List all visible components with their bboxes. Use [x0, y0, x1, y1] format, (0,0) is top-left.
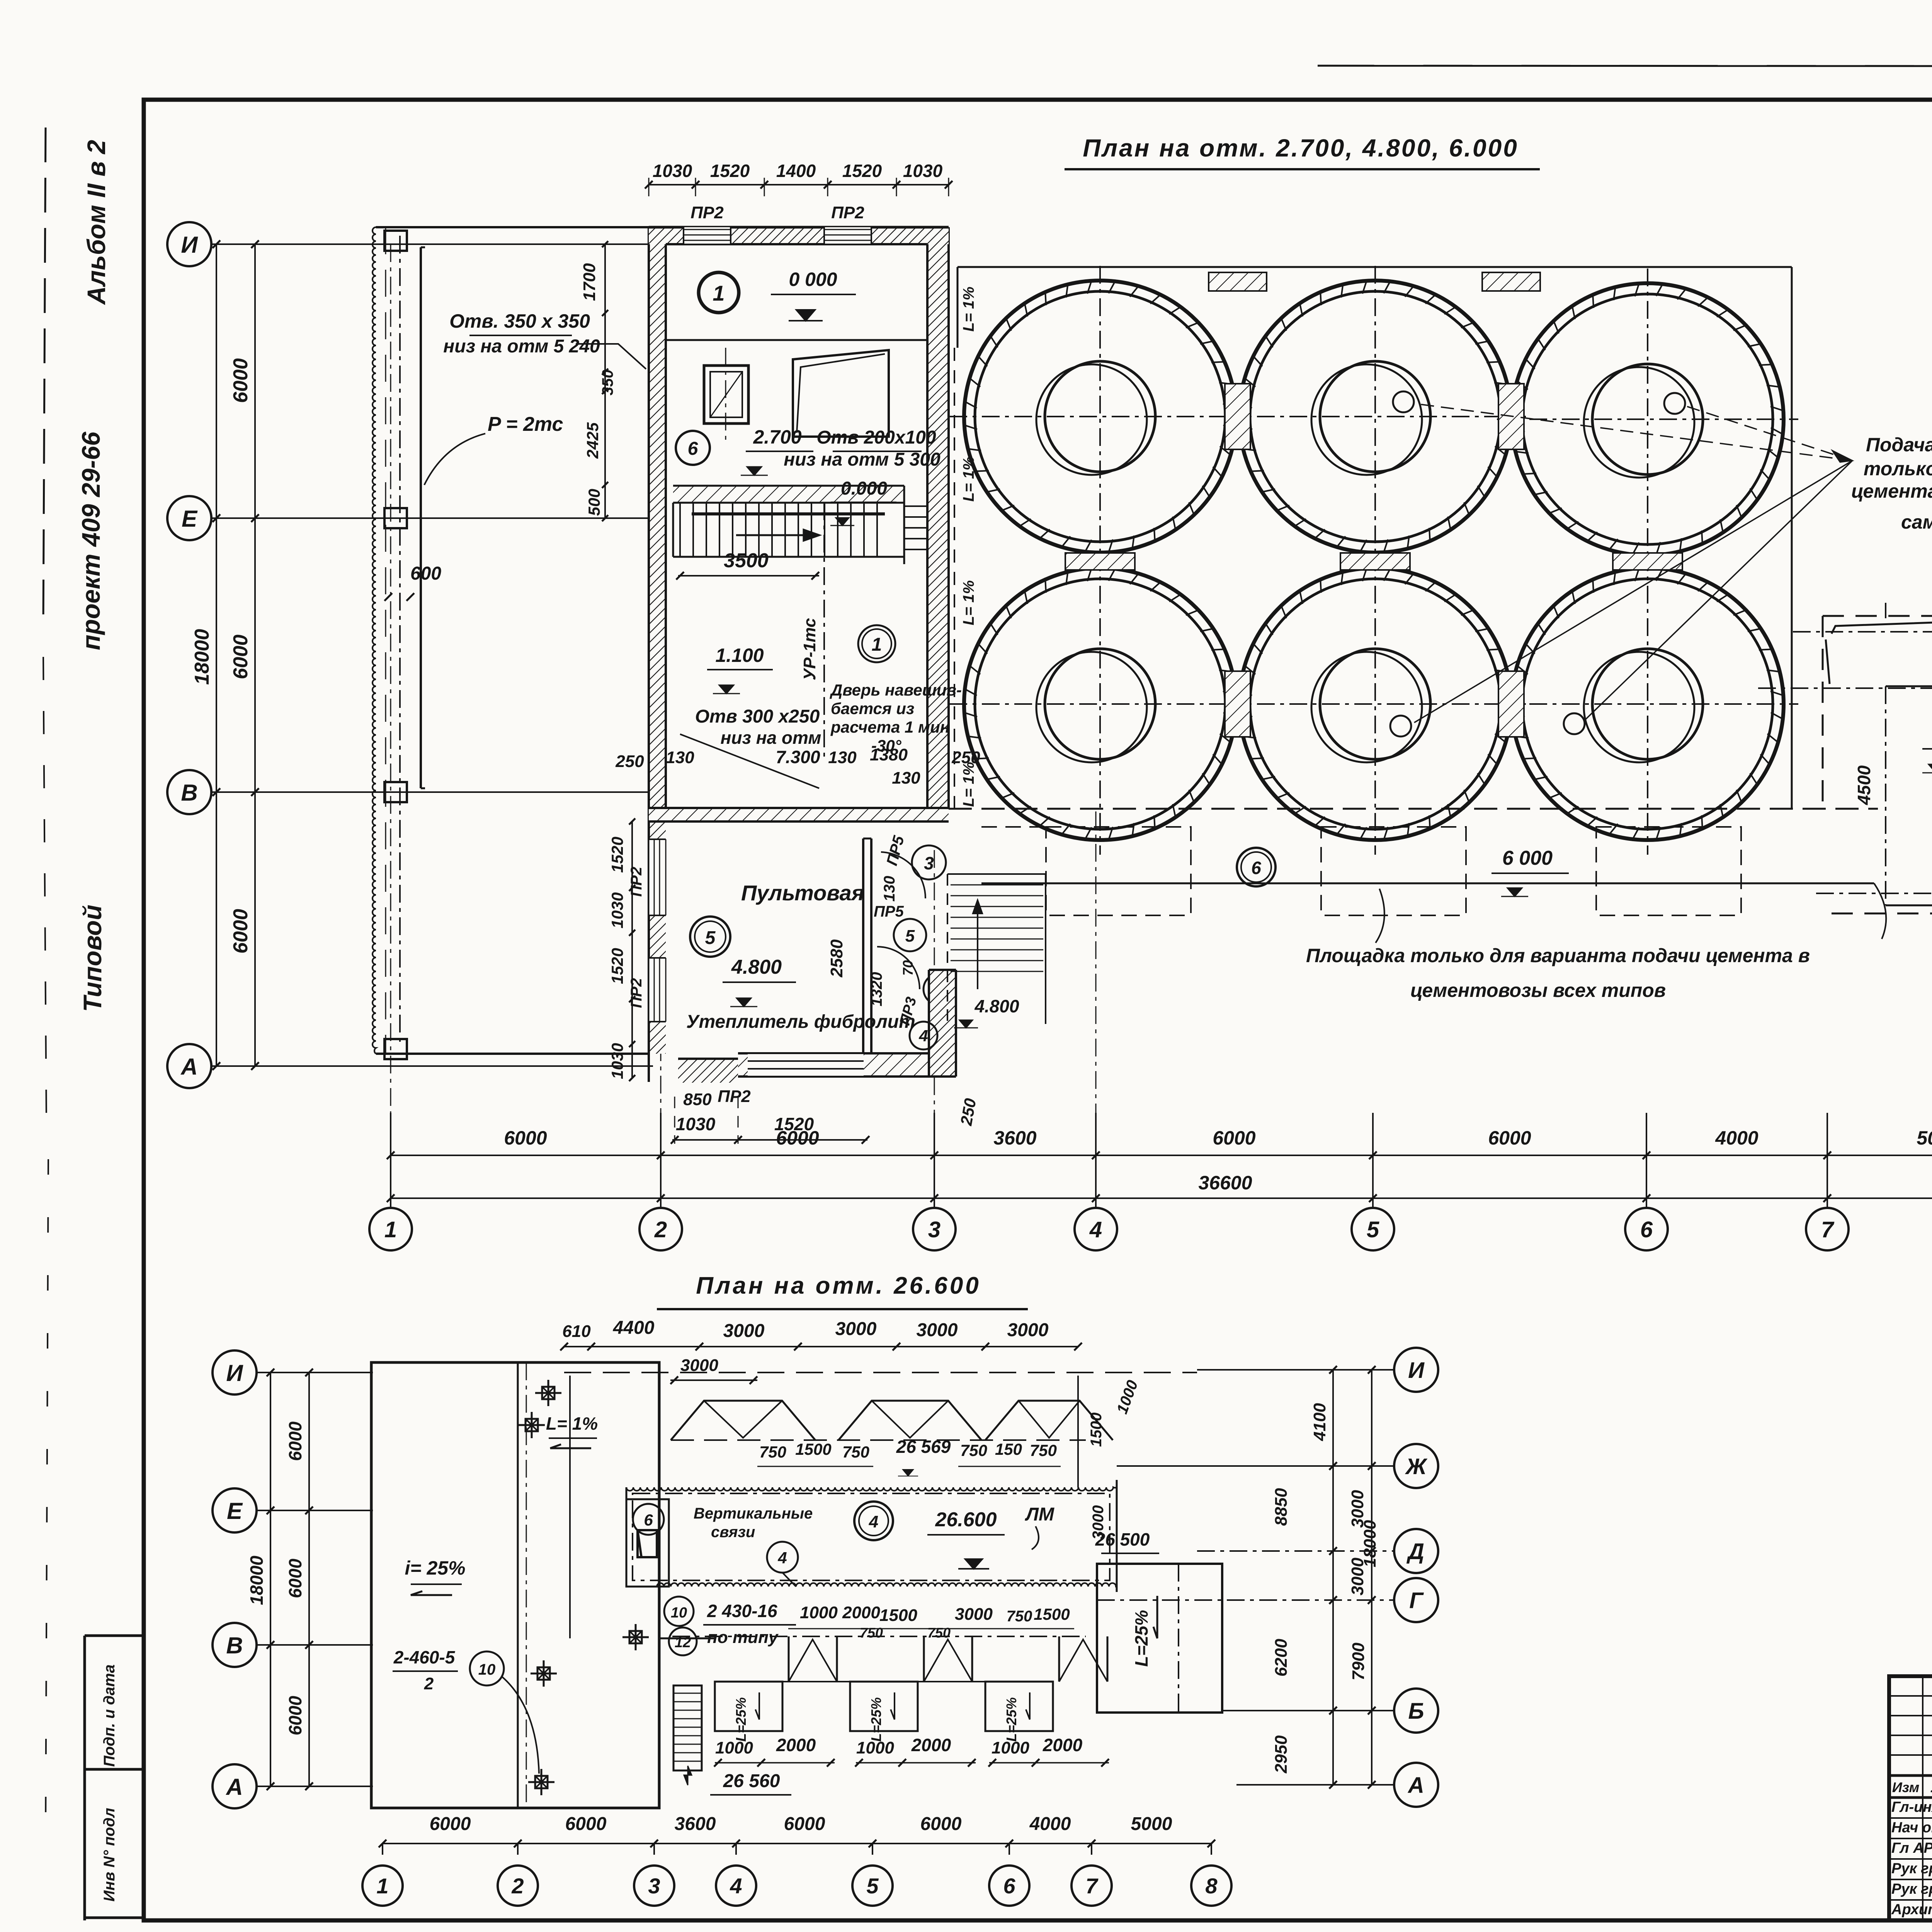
- svg-text:1520: 1520: [608, 948, 626, 984]
- svg-text:L=25%: L=25%: [868, 1697, 884, 1742]
- axis circle 7 bottom: [1071, 1866, 1112, 1906]
- roof block L=25%: [850, 1682, 918, 1731]
- svg-text:5: 5: [866, 1874, 879, 1898]
- open shed (left) outline: [376, 226, 649, 228]
- svg-text:ПР2: ПР2: [831, 203, 864, 222]
- left wall windows (lower): [649, 839, 666, 915]
- svg-text:Гл АРХ отд: Гл АРХ отд: [1891, 1840, 1932, 1856]
- right lower walls: [929, 970, 956, 1077]
- svg-text:А: А: [180, 1054, 197, 1080]
- stair treads: [679, 503, 681, 557]
- crane rail: [420, 247, 422, 788]
- svg-text:4: 4: [1089, 1217, 1102, 1242]
- left margin stamp column: [85, 1634, 144, 1637]
- axis circle А left: [167, 1044, 211, 1088]
- svg-text:6000: 6000: [230, 909, 252, 954]
- wall dim chain 1700 350 2425 500: [604, 244, 606, 518]
- svg-text:750: 750: [759, 1443, 786, 1461]
- svg-text:2000: 2000: [911, 1735, 951, 1755]
- svg-text:Отв 300 x250: Отв 300 x250: [695, 706, 820, 727]
- svg-text:Архитект: Архитект: [1891, 1901, 1932, 1918]
- svg-text:5: 5: [905, 927, 915, 946]
- bottom plan left dim chains: [270, 1372, 271, 1786]
- svg-text:4: 4: [918, 1027, 928, 1045]
- svg-text:7: 7: [1085, 1874, 1099, 1898]
- svg-text:6: 6: [1251, 858, 1261, 878]
- svg-text:L=25%: L=25%: [1003, 1697, 1019, 1742]
- svg-text:4.800: 4.800: [974, 996, 1019, 1016]
- svg-text:26.600: 26.600: [935, 1509, 997, 1531]
- svg-text:2: 2: [424, 1674, 434, 1693]
- title block: [1889, 1676, 1932, 1920]
- svg-text:4100: 4100: [1310, 1403, 1329, 1441]
- svg-text:низ на отм: низ на отм: [721, 728, 821, 748]
- svg-text:6000: 6000: [430, 1814, 471, 1834]
- roof funnel: [671, 1401, 815, 1440]
- bottom plan small stair: [673, 1685, 702, 1770]
- svg-text:по типу: по типу: [707, 1628, 779, 1647]
- axis circle 8 bottom: [1191, 1866, 1231, 1906]
- lower-left window dims (rotated): [631, 821, 633, 1078]
- silo 3: [1512, 283, 1784, 555]
- svg-text:6: 6: [1003, 1874, 1015, 1898]
- svg-text:5: 5: [1367, 1217, 1379, 1242]
- axis circle В left: [167, 770, 211, 814]
- shed columns: [384, 231, 407, 251]
- svg-text:План на отм. 26.600: План на отм. 26.600: [696, 1272, 981, 1299]
- svg-text:4: 4: [869, 1512, 878, 1531]
- svg-text:Б: Б: [1408, 1699, 1424, 1724]
- svg-text:18000: 18000: [191, 629, 213, 685]
- svg-text:Утеплитель фибролит: Утеплитель фибролит: [686, 1012, 915, 1032]
- svg-text:18000: 18000: [247, 1556, 267, 1605]
- axis circle 4: [1075, 1208, 1117, 1250]
- svg-text:L= 1%: L= 1%: [960, 287, 977, 332]
- svg-text:L= 1%: L= 1%: [960, 580, 977, 626]
- stair down flight right: [904, 505, 927, 507]
- svg-text:1520: 1520: [842, 161, 882, 181]
- bottom plan bottom dim chain: [383, 1843, 1211, 1844]
- svg-text:1030: 1030: [608, 1043, 626, 1079]
- svg-text:Подача из воронок силосов: Подача из воронок силосов: [1866, 434, 1932, 456]
- room number 5 double circle: [690, 917, 730, 957]
- svg-text:6000: 6000: [230, 358, 252, 403]
- svg-text:1.100: 1.100: [715, 645, 764, 666]
- svg-text:1000: 1000: [992, 1738, 1029, 1757]
- svg-text:500: 500: [585, 489, 603, 516]
- platform strip below silos: [981, 883, 1874, 884]
- svg-text:3000: 3000: [835, 1319, 877, 1339]
- roof block L=25%: [715, 1682, 782, 1731]
- circled 4 leader below gallery: [767, 1542, 798, 1573]
- svg-text:Подп. и дата: Подп. и дата: [101, 1665, 118, 1767]
- svg-text:Д: Д: [1406, 1539, 1424, 1564]
- svg-text:самозагрузкой: самозагрузкой: [1901, 511, 1932, 533]
- building outer walls (hatched): [649, 227, 666, 1054]
- top plan left axis lines: [212, 243, 653, 245]
- svg-text:Ж: Ж: [1405, 1454, 1428, 1479]
- svg-text:2950: 2950: [1272, 1735, 1291, 1774]
- svg-text:600: 600: [410, 563, 441, 584]
- circled 10/12 по типу: [664, 1597, 694, 1626]
- svg-text:6000: 6000: [1488, 1127, 1531, 1149]
- bottom plan building outline: [371, 1362, 659, 1808]
- svg-text:1500: 1500: [1088, 1413, 1105, 1447]
- silo 5: [1239, 568, 1511, 840]
- svg-text:750: 750: [1030, 1441, 1057, 1459]
- axis circle 3: [913, 1208, 956, 1250]
- axis circle 7: [1806, 1208, 1849, 1250]
- svg-text:6: 6: [688, 439, 698, 459]
- silo block inner dashed edge: [954, 348, 955, 809]
- axis circle 4 bottom: [716, 1866, 756, 1906]
- svg-text:8850: 8850: [1272, 1488, 1291, 1526]
- circled 4 leader: [910, 1022, 937, 1049]
- svg-text:2000: 2000: [776, 1735, 816, 1755]
- svg-text:бается из: бается из: [831, 699, 914, 718]
- svg-text:610: 610: [562, 1322, 591, 1341]
- svg-text:3: 3: [648, 1874, 660, 1898]
- paper edge artifacts: [43, 128, 46, 618]
- svg-text:6000: 6000: [230, 634, 252, 679]
- svg-text:6000: 6000: [285, 1696, 305, 1735]
- svg-text:1520: 1520: [608, 837, 626, 872]
- svg-text:Отв. 350 x 350: Отв. 350 x 350: [449, 310, 590, 332]
- svg-text:Вертикальные: Вертикальные: [694, 1505, 813, 1522]
- svg-text:4400: 4400: [613, 1318, 655, 1338]
- svg-text:ПР2: ПР2: [718, 1087, 751, 1106]
- axis circle 1: [369, 1208, 412, 1250]
- roof block L=25%: [985, 1682, 1053, 1731]
- bottom plan left axis lines: [257, 1372, 373, 1373]
- centerline through windows: [725, 348, 726, 440]
- right room outline (dashed): [1823, 615, 1932, 617]
- svg-text:6000: 6000: [565, 1814, 607, 1834]
- svg-text:2425: 2425: [583, 422, 602, 459]
- svg-text:ПР2: ПР2: [690, 203, 724, 222]
- svg-text:6 000: 6 000: [1502, 847, 1553, 869]
- svg-text:70: 70: [900, 960, 916, 976]
- svg-text:Альбом II в 2: Альбом II в 2: [82, 140, 111, 305]
- svg-text:3500: 3500: [724, 549, 769, 572]
- door arc ПР5 room 3: [912, 845, 946, 879]
- svg-text:Пультовая: Пультовая: [741, 881, 864, 905]
- window rect small: [704, 366, 748, 423]
- svg-text:1380: 1380: [870, 745, 908, 764]
- bottom plan: right square: [1097, 1564, 1222, 1713]
- svg-text:5000: 5000: [1131, 1814, 1172, 1834]
- svg-text:1030: 1030: [653, 161, 692, 181]
- svg-text:0.000: 0.000: [841, 478, 887, 499]
- svg-text:В: В: [181, 780, 197, 806]
- svg-text:6000: 6000: [285, 1558, 305, 1598]
- gallery (надсилосная галерея): [626, 1487, 1117, 1491]
- roof funnel: [985, 1401, 1113, 1440]
- svg-text:3000: 3000: [1090, 1505, 1107, 1540]
- external stair right: [947, 874, 948, 1024]
- axis circle В bottom-left: [213, 1623, 257, 1667]
- svg-text:3600: 3600: [675, 1814, 716, 1834]
- drain funnel symbol: [519, 1424, 545, 1426]
- svg-text:3000: 3000: [680, 1356, 718, 1375]
- svg-text:1030: 1030: [676, 1114, 716, 1134]
- axis circle Е left: [167, 496, 211, 540]
- svg-text:7: 7: [1821, 1217, 1835, 1242]
- Пультовая room walls: [648, 1054, 650, 1082]
- window ПР2 openings in top wall: [684, 227, 731, 244]
- svg-text:5: 5: [705, 928, 716, 948]
- top plan left dim chain: [216, 244, 217, 1066]
- svg-text:750: 750: [1007, 1608, 1032, 1625]
- window rect big (skewed): [793, 350, 889, 437]
- svg-text:6000: 6000: [285, 1421, 305, 1461]
- svg-text:Типовой: Типовой: [78, 905, 107, 1012]
- bottom plan right dim chains: [1332, 1370, 1334, 1785]
- svg-text:3: 3: [924, 853, 934, 873]
- stair landing hatched: [673, 486, 904, 503]
- svg-text:150: 150: [995, 1440, 1022, 1458]
- bottom wall with window: [738, 1053, 929, 1077]
- axis circle 1 bottom: [362, 1866, 403, 1906]
- svg-text:6200: 6200: [1272, 1639, 1291, 1677]
- svg-text:6: 6: [1640, 1217, 1653, 1242]
- axis circle А bottom-right: [1394, 1763, 1438, 1807]
- lower roof funnel: [788, 1636, 790, 1682]
- УР-1тс centerline: [823, 502, 825, 757]
- svg-text:26 560: 26 560: [723, 1771, 780, 1791]
- axis circle 3 bottom: [634, 1866, 674, 1906]
- svg-text:6000: 6000: [1213, 1127, 1255, 1149]
- svg-text:36600: 36600: [1198, 1172, 1252, 1194]
- top dim chain 1030 1520 1400 1520 1030: [649, 184, 949, 185]
- building top wall: [649, 227, 949, 244]
- svg-text:Е: Е: [227, 1498, 243, 1524]
- svg-text:1: 1: [713, 281, 724, 305]
- svg-text:750: 750: [860, 1625, 883, 1641]
- svg-text:3000: 3000: [917, 1320, 958, 1340]
- axis circle Б bottom-right: [1394, 1689, 1438, 1733]
- svg-text:1: 1: [376, 1874, 388, 1898]
- svg-text:1520: 1520: [710, 161, 750, 181]
- svg-text:расчета 1 мин: расчета 1 мин: [830, 718, 950, 736]
- svg-text:7.300: 7.300: [776, 747, 820, 767]
- svg-text:1: 1: [872, 634, 882, 655]
- svg-text:L=25%: L=25%: [733, 1697, 749, 1742]
- svg-text:И: И: [1408, 1358, 1425, 1383]
- svg-text:План на отм. 2.700, 4.800,: План на отм. 2.700, 4.800, 6.000: [1083, 134, 1519, 162]
- svg-text:низ на отм 5 240: низ на отм 5 240: [443, 336, 600, 357]
- svg-text:1030: 1030: [608, 892, 626, 928]
- canopy top-left lines: [1832, 618, 1932, 634]
- svg-text:3000: 3000: [955, 1605, 993, 1624]
- svg-text:только для варианта подачи: только для варианта подачи: [1864, 458, 1932, 480]
- svg-text:i= 25%: i= 25%: [405, 1557, 465, 1579]
- svg-text:цементовозы всех типов: цементовозы всех типов: [1410, 980, 1666, 1001]
- leader dashed lines to manholes: [1416, 404, 1852, 461]
- top plan bottom dimension chains: [391, 1155, 1932, 1156]
- svg-text:3000: 3000: [723, 1321, 765, 1341]
- svg-text:10: 10: [671, 1605, 687, 1621]
- svg-text:4: 4: [777, 1549, 787, 1567]
- svg-text:6000: 6000: [504, 1127, 547, 1149]
- svg-text:12: 12: [675, 1634, 691, 1651]
- svg-text:0 000: 0 000: [789, 269, 837, 290]
- svg-text:750: 750: [960, 1441, 987, 1459]
- svg-text:1000 2000: 1000 2000: [800, 1603, 881, 1622]
- svg-text:4: 4: [730, 1874, 742, 1898]
- svg-text:4500: 4500: [1854, 765, 1874, 805]
- svg-text:3600: 3600: [993, 1127, 1036, 1149]
- svg-text:2 430-16: 2 430-16: [707, 1601, 777, 1621]
- circled 6 detail: [676, 431, 710, 465]
- svg-text:1500: 1500: [795, 1440, 831, 1458]
- svg-text:ПР2: ПР2: [628, 978, 645, 1008]
- top plan column axis lines (dash-dot verticals): [390, 1113, 391, 1206]
- shed rail centerline: [399, 236, 401, 1047]
- svg-text:УР-1тс: УР-1тс: [800, 618, 819, 680]
- silo hatch connectors: [1225, 384, 1250, 449]
- svg-text:6000: 6000: [920, 1814, 962, 1834]
- small manhole circles: [1393, 391, 1414, 412]
- svg-text:Гл-инж пр: Гл-инж пр: [1891, 1799, 1932, 1815]
- room number 1 (bold circle): [699, 272, 739, 313]
- svg-text:6000: 6000: [776, 1127, 819, 1149]
- svg-text:1000: 1000: [856, 1738, 894, 1757]
- axis circle И left: [167, 222, 211, 266]
- axis circle 6: [1625, 1208, 1668, 1250]
- svg-text:130: 130: [892, 769, 920, 787]
- svg-text:Е: Е: [182, 506, 198, 532]
- svg-text:18000: 18000: [1361, 1520, 1379, 1567]
- gallery left room: [626, 1499, 669, 1587]
- axis circle Д bottom-right: [1394, 1529, 1438, 1573]
- svg-text:Площадка только для варианта п: Площадка только для варианта подачи цеме…: [1306, 945, 1810, 966]
- stair rail + arrow: [692, 512, 885, 515]
- roof funnel: [838, 1401, 981, 1440]
- axis circle 5 bottom: [852, 1866, 893, 1906]
- drain funnel symbol: [531, 1673, 557, 1675]
- svg-text:10: 10: [478, 1661, 496, 1678]
- svg-text:ЛМ: ЛМ: [1025, 1504, 1054, 1525]
- svg-text:проект 409 29-66: проект 409 29-66: [77, 431, 105, 650]
- axis circle 2 bottom: [498, 1866, 538, 1906]
- svg-text:3000: 3000: [1007, 1320, 1049, 1340]
- inner partition + door arcs: [894, 919, 926, 951]
- svg-text:130: 130: [666, 748, 694, 767]
- svg-text:Нач отд.: Нач отд.: [1891, 1820, 1932, 1836]
- svg-text:P = 2тс: P = 2тс: [488, 413, 563, 435]
- svg-text:А: А: [225, 1774, 243, 1800]
- svg-text:2: 2: [511, 1874, 524, 1898]
- svg-text:Дверь навешив-: Дверь навешив-: [830, 681, 962, 699]
- axis circle И bottom-left: [213, 1350, 257, 1395]
- svg-text:1320: 1320: [868, 972, 885, 1007]
- axis circle И bottom-right: [1394, 1348, 1438, 1392]
- drain funnel symbol: [535, 1392, 561, 1394]
- svg-text:130: 130: [881, 876, 898, 902]
- lower roof funnel: [923, 1636, 925, 1682]
- drain funnel symbol: [528, 1781, 554, 1783]
- svg-text:130: 130: [828, 748, 857, 767]
- axis circle 2: [639, 1208, 682, 1250]
- svg-text:4000: 4000: [1029, 1814, 1071, 1834]
- svg-text:Инв N° подл: Инв N° подл: [101, 1808, 118, 1902]
- svg-text:5000: 5000: [1917, 1127, 1932, 1149]
- svg-text:1700: 1700: [580, 263, 599, 301]
- circled 4 double in gallery: [854, 1502, 893, 1540]
- svg-text:3: 3: [928, 1217, 940, 1242]
- svg-text:Рук гр: Рук гр: [1891, 1861, 1932, 1877]
- circled 6 on platform: [1237, 848, 1276, 886]
- svg-text:L= 1%: L= 1%: [960, 457, 977, 502]
- wall opening 350x350: [649, 372, 666, 391]
- svg-text:7900: 7900: [1349, 1643, 1368, 1680]
- building mid wall at lower room: [649, 808, 949, 821]
- svg-text:Изм: Изм: [1892, 1779, 1919, 1795]
- svg-text:2.700: 2.700: [753, 426, 801, 448]
- svg-text:8: 8: [1205, 1874, 1218, 1898]
- silo 4: [964, 568, 1236, 840]
- svg-text:26 569: 26 569: [896, 1437, 951, 1457]
- svg-text:ПР2: ПР2: [628, 867, 645, 897]
- svg-text:1: 1: [384, 1217, 397, 1242]
- axis circle 5: [1352, 1208, 1394, 1250]
- svg-text:2: 2: [654, 1217, 667, 1242]
- room number 1 (double circle): [858, 625, 895, 662]
- svg-text:низ на отм 5 300: низ на отм 5 300: [784, 449, 940, 470]
- svg-text:750: 750: [842, 1443, 869, 1461]
- svg-text:И: И: [181, 232, 198, 258]
- svg-text:4000: 4000: [1715, 1127, 1758, 1149]
- svg-text:350: 350: [599, 370, 616, 396]
- lower funnels and blocks: [672, 1636, 1086, 1637]
- svg-text:6: 6: [644, 1511, 653, 1529]
- svg-text:L= 1%: L= 1%: [960, 762, 977, 807]
- svg-text:Отв 200x100: Отв 200x100: [816, 427, 936, 448]
- svg-text:6000: 6000: [784, 1814, 825, 1834]
- svg-text:850: 850: [683, 1090, 712, 1109]
- circled 6 gallery: [633, 1504, 664, 1535]
- silo block outline: [957, 266, 1792, 268]
- silo 1: [964, 281, 1236, 553]
- axis circle Ж bottom-right: [1394, 1444, 1438, 1488]
- svg-text:L=25%: L=25%: [1131, 1610, 1151, 1667]
- axis circle Г bottom-right: [1394, 1578, 1438, 1622]
- axis circle Е bottom-left: [213, 1488, 257, 1532]
- svg-text:750: 750: [927, 1625, 951, 1641]
- interior line below room 1: [666, 339, 927, 341]
- bottom plan right axis circles: [1197, 1369, 1394, 1371]
- partition wall: [862, 838, 864, 1053]
- svg-text:Г: Г: [1409, 1588, 1424, 1613]
- svg-text:2-460-5: 2-460-5: [393, 1647, 456, 1667]
- svg-text:Рук гр АРХ: Рук гр АРХ: [1891, 1881, 1932, 1897]
- svg-text:ПР5: ПР5: [874, 903, 904, 920]
- lower roof funnel: [1058, 1636, 1060, 1682]
- svg-text:2580: 2580: [827, 939, 846, 978]
- silo 6: [1512, 568, 1784, 840]
- silo 2: [1239, 281, 1511, 553]
- drain funnel symbol: [622, 1636, 649, 1638]
- svg-text:1500: 1500: [879, 1606, 917, 1625]
- svg-text:1030: 1030: [903, 161, 943, 181]
- svg-text:4.800: 4.800: [731, 956, 782, 978]
- svg-text:А: А: [1407, 1773, 1424, 1798]
- bottom plan roof block outline: [564, 1372, 1197, 1373]
- svg-text:2000: 2000: [1043, 1735, 1083, 1755]
- svg-text:В: В: [226, 1633, 243, 1658]
- axis circle А bottom-left: [213, 1764, 257, 1808]
